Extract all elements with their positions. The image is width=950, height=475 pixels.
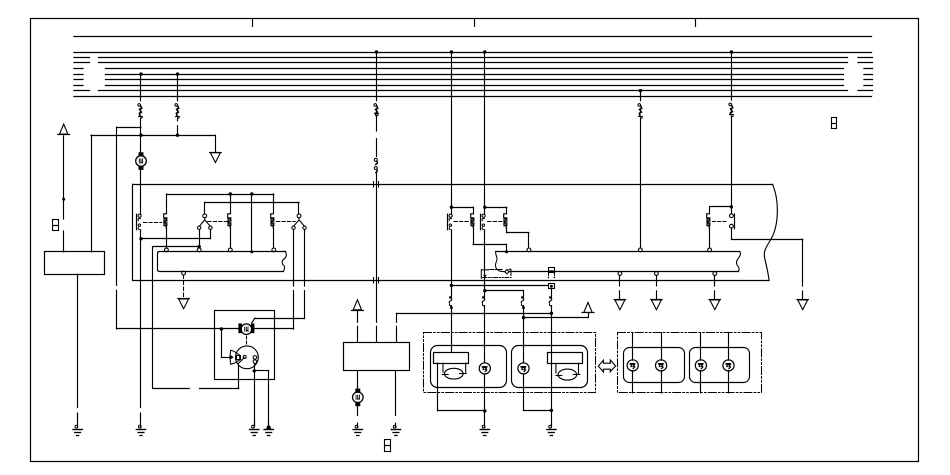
option dash-dot y277.5 (483, 277, 511, 279)
bus line 7 (74, 85, 873, 87)
link F (dashed) (454, 221, 470, 223)
pin control unit 1 (x166) (165, 248, 169, 252)
ground G8 (547, 411, 556, 436)
switch S2 comb (163, 194, 167, 248)
down arrow B (ground ref) (210, 153, 221, 163)
wire F3 to breaker (376, 115, 378, 131)
wire switch-F branch (451, 207, 473, 209)
socket housing R2 (690, 348, 750, 383)
wire H1-return to ground join (438, 410, 485, 412)
marker lamp wire 3 upper (700, 333, 702, 361)
headlamp H1 bulb (445, 368, 464, 379)
connector pass-through x376 bottom edge (373, 278, 375, 283)
node bus-drop x141 junction (139, 72, 142, 75)
socket housing L2 (512, 346, 588, 388)
socket housing R1 (624, 348, 685, 383)
switch G2 comb (503, 214, 507, 233)
node lineB start junction (522, 316, 525, 319)
headlight harness box (dash-dot) (424, 333, 596, 393)
wire box-left to ground (77, 274, 79, 407)
wire cam feed (221, 329, 223, 357)
link G (dashed) (488, 221, 504, 223)
connector K upper box (549, 268, 555, 273)
down arrow C (178, 299, 189, 309)
marker lamp bulb 1 (627, 360, 638, 371)
control unit 2 top edge (496, 251, 740, 253)
marker lamp wire 2 upper (661, 333, 663, 361)
wire x523.5 to ground join (524, 410, 552, 412)
wire S6R lower (304, 291, 306, 318)
switch S6 throw L contact (292, 226, 295, 229)
wire unit1 to down-arrow (dashed) (183, 275, 185, 298)
option bracket left (481, 270, 488, 279)
fuse F3 (374, 104, 378, 116)
fuse F4 (638, 104, 642, 119)
node x485-y290.7 junction (483, 289, 486, 292)
switch S3 throw R contact (209, 226, 212, 229)
node x451 connector dot (450, 306, 453, 309)
fuse F1 (138, 104, 142, 119)
wire cam out right (254, 363, 256, 371)
bus line 8 (74, 90, 873, 92)
connector K lower box (549, 284, 555, 289)
wire cam-out branch (254, 370, 269, 372)
switch F pole (448, 214, 453, 230)
switch S5 comb (270, 194, 274, 248)
wire K down (551, 289, 553, 296)
wire x116.5 to motor node (117, 328, 222, 330)
switch H2 contact 2 (730, 224, 734, 228)
marker harness box (dash-dot) (618, 333, 762, 393)
cam feed arrowhead (230, 355, 234, 360)
ground G4 (body) (264, 420, 273, 436)
wire y388 segment B (153, 388, 189, 390)
bus line 9 (74, 96, 872, 98)
pin control unit 1 (x230) (228, 248, 232, 252)
option diamond (505, 270, 509, 274)
motor M1 (intermittent unit) (136, 152, 147, 170)
border tick 3 (695, 19, 697, 26)
park switch cam wedge (230, 350, 240, 364)
marker lamp wire 4 upper (728, 333, 730, 361)
node motor feed junction (220, 327, 223, 330)
wire x91.6 (91, 135, 93, 252)
pin control unit 1 (x199) (197, 248, 201, 252)
connector curl x523.5 (521, 296, 524, 306)
park cam arm (239, 358, 245, 364)
connector curl x551.4 (549, 296, 552, 306)
bus line 5 (74, 74, 873, 76)
wire S6R upper (304, 229, 306, 286)
option arrowhead on x485 (483, 275, 486, 279)
node bus-drop x376 junction (375, 50, 378, 53)
wire F5 to switch-H (731, 116, 733, 213)
wire lineB to arrow E (588, 313, 590, 317)
lamp feed line B y317.6 (524, 317, 589, 319)
node bus-drop x731 junction (730, 50, 733, 53)
wire unit2 output 3 (714, 275, 716, 286)
wire x376 to washer unit (376, 326, 378, 342)
wire F1 to tee (140, 118, 142, 135)
wire x116.5 upper (116, 127, 118, 285)
washer unit box (344, 343, 410, 371)
border tick 2 (474, 19, 476, 26)
line y238.7 (141, 238, 210, 240)
wire S1 to node (140, 230, 142, 239)
side bulb S2 (518, 363, 529, 374)
switch F2 comb (470, 214, 474, 244)
inter-assembly arrow (both ways) (598, 360, 615, 372)
headlamp H1 body (434, 353, 469, 364)
wire arrow-D stem (357, 310, 359, 322)
wire x251.8 to unit (251, 194, 253, 252)
wire x485 mid (484, 230, 486, 296)
up arrow A (to power) (58, 124, 70, 134)
wire drop x640 upper (640, 91, 642, 101)
wire x152.8 riser (152, 247, 154, 389)
node x251.8 on unit edge (250, 250, 253, 253)
wire cam bottom lead (238, 366, 240, 389)
connector ref C3 (double box) (385, 440, 391, 452)
marker lamp wire 1 lower (632, 371, 634, 393)
marker lamp wire 2 lower (661, 371, 663, 393)
pin control unit 1 bottom (x183.6) (182, 271, 186, 275)
connector K upper fill (549, 270, 553, 272)
headlamp H2 bulb (558, 369, 577, 380)
ground G3 (250, 420, 259, 436)
bus line 3 (74, 62, 873, 64)
node x523.5 connector dot (522, 306, 525, 309)
connector K leg dots (548, 277, 550, 279)
connector pass-through x376 top edge (373, 182, 375, 187)
switch S6 pivot wire (298, 202, 300, 214)
bus line 1 (feed) (74, 52, 872, 54)
node bus-drop x485 junction (483, 50, 486, 53)
switch S6 throw R contact (303, 226, 306, 229)
link S5-S6 (dashed) (277, 221, 296, 223)
bus line 6 (74, 79, 873, 81)
wire washer motor lead (357, 371, 359, 389)
down arrow unit2-3 (709, 300, 720, 310)
wire x523.5 to bulb (523, 306, 525, 363)
wire F2-comb to unit2 (473, 244, 506, 246)
node cam-out junction (253, 369, 256, 372)
switch S3 pivot wire (204, 202, 206, 214)
node y194-x251.8 junction (250, 192, 253, 195)
switch S6 pivot (297, 214, 301, 218)
node switch-F junction (450, 206, 453, 209)
feed line y135 (91, 135, 215, 137)
motor M3 (washer) (353, 389, 364, 407)
socket housing L1 (431, 346, 507, 388)
control unit 2 torn edge (737, 252, 741, 272)
marker lamp bulb 2 (656, 360, 667, 371)
ground G7 (480, 415, 489, 436)
connector curl x485 (482, 296, 485, 306)
control unit 1 outline (158, 252, 286, 272)
wire S3R to y238.7 (210, 229, 212, 238)
node x63.7 dot (62, 198, 65, 201)
wire arrow-A stem (63, 136, 65, 219)
link H (dashed) (713, 221, 729, 223)
node switch-G junction (483, 206, 486, 209)
pin control unit 2 bottom 3 (713, 272, 717, 276)
bus line 4 (74, 68, 873, 70)
connector curl x451 (449, 296, 452, 306)
node bus-drop x640 junction (639, 89, 642, 92)
headlamp H1 bulb ticks (442, 374, 448, 376)
lamp feed line A y313.3 (397, 313, 552, 315)
wire F4 to unit pin (640, 118, 642, 248)
wire M2 right lead (255, 328, 294, 330)
bus line 2 (74, 57, 873, 59)
down arrow unit2-2 (651, 300, 662, 310)
switch S3 pivot (203, 214, 207, 218)
marker lamp wire 4 lower (728, 371, 730, 393)
wire x551.4 to headlamp (551, 306, 553, 353)
option bracket right (509, 269, 511, 275)
relay box torn right edge (764, 184, 777, 280)
wire x523.5 bulb lower (523, 374, 525, 410)
wire S6R to motor M2 (255, 318, 305, 320)
node bus-drop x451 junction (450, 50, 453, 53)
node ground join x551.4 (550, 409, 553, 412)
headlamp H1 collar (443, 363, 466, 372)
marker lamp bulb 3 (695, 360, 706, 371)
line y246.6 (153, 246, 199, 248)
switch H2 bar (734, 214, 736, 221)
wire G2-comb to unit2 pin (507, 232, 529, 234)
wire M1 to switch S1 (140, 170, 142, 214)
headlamp H2 body (548, 353, 583, 364)
side bulb S1 (479, 363, 490, 374)
wire unit2 output 1 (619, 275, 621, 286)
wire ground lead x77.6 (77, 413, 79, 418)
link S3-S4 (dashed) (208, 221, 227, 223)
park cam center contact (243, 355, 246, 358)
option dash-dot y269.8 (490, 269, 503, 271)
node switch-H junction (730, 205, 733, 208)
wire washer pin3 upper (396, 313, 398, 322)
control unit 1 torn edge (282, 252, 286, 272)
wire tee x141 to x116.5 (117, 127, 142, 129)
pin control unit 2 bottom 1 (618, 272, 622, 276)
wire x451 mid (451, 230, 453, 296)
node unit2 edge x506.5 (505, 250, 508, 253)
marker lamp wire 1 upper (632, 333, 634, 361)
wire x485 to bulb (484, 306, 486, 363)
node y135-x141 junction (139, 134, 142, 137)
wire x376 through relay box (376, 174, 378, 323)
headlamp H2 bulb ticks (556, 375, 562, 377)
up arrow E (582, 302, 594, 312)
unit2 left hook (S-curve) (495, 252, 504, 272)
up arrow D (352, 300, 364, 311)
node lineA end junction (550, 312, 553, 315)
ladder line y202 (205, 202, 299, 204)
wire S6L upper (293, 229, 295, 286)
node ground join x485 (483, 409, 486, 412)
control unit 2 bottom edge (509, 271, 738, 273)
wire S6L lower (293, 291, 295, 329)
wire x485 bulb lower (484, 374, 486, 415)
harness line y285.4 (451, 285, 548, 287)
wire S3L to y246.6 (199, 229, 201, 248)
border tick 1 (252, 19, 254, 26)
pin on control unit 2 top (x640) (639, 248, 643, 252)
node y135-x177.5 junction (176, 134, 179, 137)
wire drop x485 (484, 52, 486, 214)
motor M2 (238, 323, 254, 334)
wire switch-H branch (710, 206, 732, 208)
wire M2 left lead (221, 328, 238, 330)
control box (left) (45, 252, 105, 275)
relay box bottom edge (133, 280, 769, 282)
link S1-S2 (dashed) (144, 222, 162, 224)
harness line y290.7 (485, 290, 524, 292)
wire F2 lower (177, 118, 179, 121)
ground G6 (391, 423, 400, 435)
wire y135 to down-arrow (215, 135, 217, 152)
pin control unit 1 (x273.8) (272, 248, 276, 252)
fuse F2 (175, 104, 179, 119)
connector K legs (548, 272, 550, 275)
relay box top edge (133, 184, 773, 186)
switch S1 pole (137, 214, 142, 230)
wire cam-out to ground (254, 371, 256, 426)
fuse F5 (729, 103, 733, 117)
switch G pole (481, 214, 486, 230)
ladder line y194 (166, 194, 273, 196)
ground G2 (136, 414, 145, 436)
wire washer right to ground (395, 371, 397, 415)
node y246.6 junction (198, 245, 201, 248)
pin control unit 2 top (x528.9) (527, 248, 531, 252)
headlamp H2 collar (556, 363, 579, 374)
bus line 0 (74, 36, 872, 38)
wire x451 to headlamp (451, 306, 453, 353)
marker lamp wire 3 lower (700, 371, 702, 393)
park cam circle (236, 346, 259, 369)
node y194-x230 junction (229, 192, 232, 195)
wire drop x376 upper (376, 52, 378, 101)
connector ref C1 (double box) (53, 220, 59, 231)
wire x141 to ground (140, 239, 142, 408)
relay box left edge (132, 184, 134, 280)
wire ground lead x141 (140, 413, 142, 418)
wire switch-H output (731, 228, 733, 239)
node bus-drop x177.5 junction (176, 72, 179, 75)
wire drop x731 upper (731, 52, 733, 100)
switch S4 comb (227, 194, 231, 248)
connector ref C2 (double box) (832, 118, 837, 129)
wire drop x451 (451, 52, 453, 214)
wire drop x177.5 upper (177, 74, 179, 101)
wire unit2 output 2 (656, 275, 658, 286)
park switch cam contact box (237, 356, 241, 360)
wiper motor box (215, 311, 275, 380)
down arrow unit2-1 (614, 300, 625, 310)
wire y388 segment A (200, 388, 239, 390)
wire drop x141 upper (140, 74, 142, 101)
wire x63.7 lower (63, 231, 65, 252)
down arrow switch-H (797, 300, 808, 310)
wire switch-G branch (485, 207, 507, 209)
switch S3 throw L contact (198, 226, 201, 229)
marker lamp bulb 4 (723, 360, 734, 371)
ground G5 (353, 423, 362, 435)
switch H comb (706, 207, 710, 248)
park cam right contact 1 (253, 356, 257, 360)
wire x116.5 lower (116, 290, 118, 329)
connector K lower contact (550, 285, 553, 288)
circuit breaker CB1 (374, 158, 377, 172)
wire x551.4 through H2 (551, 352, 553, 410)
wire y135 to M1 (140, 135, 142, 152)
switch H2 contact 1 (730, 214, 734, 218)
park cam right contact 2 (253, 360, 257, 364)
ground G1 (73, 414, 82, 436)
pin control unit 2 top (x709.6) (708, 248, 712, 252)
wire M3 to ground (357, 406, 359, 415)
node S1 junction (139, 237, 142, 240)
pin control unit 2 bottom 2 (655, 272, 659, 276)
node x451-y285 junction (450, 284, 453, 287)
link M2-cam (dashed) (246, 336, 248, 346)
wire H1 return (437, 363, 439, 411)
